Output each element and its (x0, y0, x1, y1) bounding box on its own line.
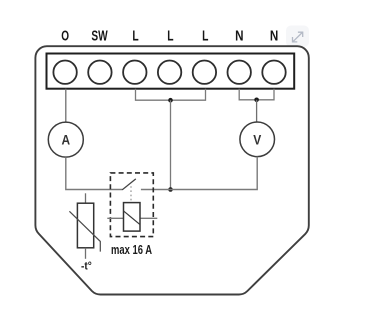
ammeter A (48, 122, 83, 157)
terminal L3 (193, 60, 216, 83)
L bridge bracket (136, 89, 206, 101)
N bridge bracket (239, 89, 274, 100)
junction dot relay line (168, 187, 173, 192)
terminal L2 (158, 60, 181, 83)
device outline (35, 46, 308, 294)
relay enclosure dashed box (110, 173, 153, 237)
wire ammeter to relay switch (66, 157, 122, 189)
terminal O (53, 60, 76, 83)
svg-text:L: L (132, 29, 138, 45)
relay coil (107, 203, 157, 232)
svg-text:max 16 A: max 16 A (111, 242, 152, 257)
thermistor temperature sensor (69, 193, 100, 258)
terminal SW (88, 60, 111, 83)
svg-text:A: A (62, 132, 71, 148)
svg-text:L: L (202, 29, 208, 45)
svg-text:N: N (235, 29, 243, 45)
terminal L1 (123, 60, 146, 83)
junction dot N bridge (254, 98, 259, 103)
svg-text:O: O (61, 29, 69, 45)
wire voltmeter to relay line (141, 157, 257, 190)
junction dot L bridge (168, 98, 173, 103)
terminal N2 (262, 60, 285, 83)
svg-text:L: L (167, 29, 173, 45)
terminal block (47, 54, 295, 89)
wire O to ammeter (65, 89, 67, 122)
svg-text:V: V (253, 131, 262, 147)
wire N bridge to voltmeter (256, 100, 258, 122)
svg-text:-t°: -t° (81, 261, 92, 273)
wire L bridge to relay line (170, 100, 172, 189)
relay actuator dotted link (130, 186, 132, 202)
relay switch blade (122, 179, 136, 190)
expand icon (286, 26, 309, 48)
svg-text:SW: SW (91, 29, 108, 45)
voltmeter V (240, 122, 275, 157)
svg-text:N: N (270, 29, 278, 45)
terminal N1 (228, 60, 251, 83)
